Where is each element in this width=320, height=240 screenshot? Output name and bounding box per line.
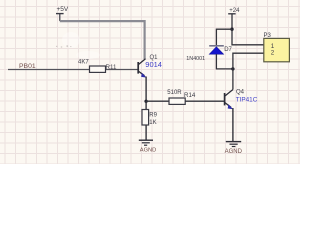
svg-text:AGND: AGND	[140, 148, 156, 154]
svg-text:P3: P3	[264, 33, 272, 39]
svg-text:2: 2	[271, 50, 275, 57]
wire R9 to ground	[145, 125, 147, 140]
sheet background	[0, 0, 300, 164]
wire +5V to Q1 collector	[60, 21, 145, 59]
resistor R11	[90, 66, 106, 72]
svg-text:AGND: AGND	[225, 149, 243, 155]
svg-text:Q4: Q4	[236, 90, 245, 96]
svg-text:4K7: 4K7	[78, 60, 89, 66]
svg-text:D7: D7	[224, 47, 232, 53]
svg-text:9014: 9014	[145, 60, 162, 69]
ground AGND left	[139, 140, 153, 145]
wire connector pin 2 to Q4 collector	[233, 53, 264, 89]
junction diode anode node	[231, 67, 234, 70]
wire +24 junction to diode cathode	[216, 29, 232, 46]
wire Q4 emitter to ground	[232, 108, 234, 142]
svg-text:R11: R11	[106, 64, 117, 71]
svg-text:+5V: +5V	[57, 6, 69, 13]
transistor Q1	[138, 59, 146, 78]
faint watermark smudge	[56, 32, 100, 59]
wire Q1 emitter down to junction	[145, 77, 147, 102]
connector P3	[264, 38, 290, 61]
svg-text:510R: 510R	[167, 90, 182, 96]
transistor Q4	[225, 90, 234, 110]
diode D7	[209, 46, 224, 54]
power +24	[228, 8, 240, 29]
junction at emitter node	[144, 100, 147, 103]
wire diode anode to pin2 node	[216, 54, 233, 69]
resistor R9	[142, 110, 149, 126]
svg-text:TIP41C: TIP41C	[236, 96, 258, 103]
svg-text:1K: 1K	[149, 120, 156, 126]
wire junction to R14	[146, 100, 169, 102]
power +5V	[56, 6, 69, 21]
svg-text:R14: R14	[184, 92, 196, 99]
wire +24 to connector pin 1	[232, 29, 264, 45]
wire junction to R9	[145, 101, 147, 109]
wire PB01 to Q1 base	[8, 69, 138, 71]
ground AGND right	[226, 142, 241, 147]
wire R14 to Q4 base	[185, 100, 224, 102]
resistor R14	[169, 98, 185, 104]
svg-text:R9: R9	[149, 113, 157, 119]
svg-text:1N4001: 1N4001	[186, 56, 205, 62]
svg-text:PB01: PB01	[19, 63, 36, 70]
junction +24 node	[230, 28, 233, 31]
